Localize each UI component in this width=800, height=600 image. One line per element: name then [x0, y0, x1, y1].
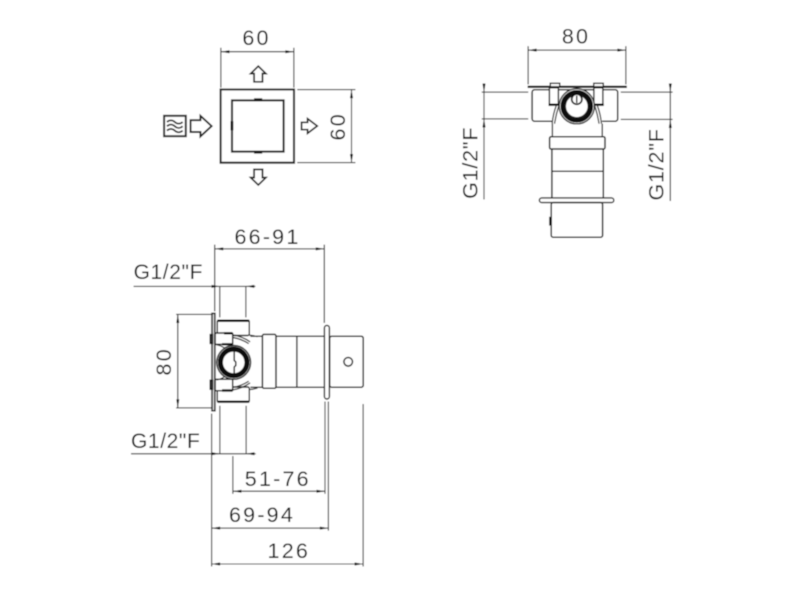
wall rear extension line: [211, 414, 213, 567]
side port circles: [217, 346, 251, 380]
valve head body: [532, 90, 618, 121]
lower port tab through wall: [210, 380, 212, 389]
dimension 60 (right height): [297, 90, 355, 163]
flange (capsule): [324, 325, 329, 399]
svg-text:69-94: 69-94: [229, 503, 295, 527]
upper port tab through wall: [210, 335, 212, 344]
neck below head: [552, 120, 602, 137]
dimension 51-76: [233, 402, 325, 494]
hanger bracket left: [549, 88, 558, 105]
knob screw circle: [344, 358, 353, 367]
hanger bracket right: [594, 88, 603, 105]
legs from brackets to neck: [552, 106, 601, 124]
collar ring (side): [262, 334, 276, 388]
svg-text:60: 60: [326, 112, 350, 140]
tick top center of inner square: [254, 98, 262, 101]
hollow arrow right: [302, 119, 318, 134]
svg-text:G1/2"F: G1/2"F: [645, 128, 669, 200]
lower rear port block: [215, 379, 233, 390]
flange (edge-on): [539, 198, 613, 203]
svg-text:126: 126: [268, 539, 310, 563]
svg-text:80: 80: [562, 24, 590, 48]
dimension 126: [212, 404, 364, 567]
bottom port cap: [217, 387, 249, 402]
wall mounting plate: [212, 313, 215, 410]
svg-text:51-76: 51-76: [245, 467, 311, 491]
tick bottom center of inner square: [254, 151, 262, 154]
knob box: [330, 336, 364, 387]
top port cap: [217, 320, 249, 335]
cartridge circles (top view): [559, 89, 594, 124]
svg-text:G1/2"F: G1/2"F: [131, 430, 200, 453]
spindle slot: [234, 351, 236, 373]
svg-text:66-91: 66-91: [235, 225, 301, 249]
G1/2"F dimension right (top view): [621, 83, 673, 201]
screw tab right: [594, 83, 603, 87]
small stop tab: [549, 217, 551, 226]
collar ring: [550, 137, 605, 149]
shoulder curves lower: [216, 375, 257, 390]
hollow flow arrow left (inlet): [191, 116, 212, 137]
dimension 80 (wall plate height): [176, 314, 213, 408]
lower body: [551, 203, 602, 238]
stem screw slot: [576, 96, 578, 103]
hollow arrow up: [251, 66, 266, 82]
hollow arrow down: [251, 169, 266, 185]
svg-text:G1/2"F: G1/2"F: [134, 261, 203, 284]
outer plate square: [221, 90, 294, 163]
inner function square: [232, 100, 284, 151]
tick left middle of inner square: [230, 121, 233, 130]
body tube below collar: [551, 149, 553, 198]
dimension 60 (top width): [221, 48, 294, 88]
svg-text:60: 60: [242, 26, 270, 50]
shoulder curves upper: [216, 335, 257, 351]
stem screw circle: [572, 94, 582, 104]
svg-text:80: 80: [152, 347, 176, 375]
svg-text:G1/2"F: G1/2"F: [459, 127, 483, 199]
horizontal cylinder: [250, 335, 324, 337]
hot-water symbol box with waves: [164, 116, 186, 136]
mounting plate (edge-on): [528, 86, 627, 88]
dimension 80 (top): [528, 46, 626, 84]
G1/2"F dimension left (top view): [482, 83, 528, 199]
dimension 66-91: [215, 245, 325, 323]
screw tab left: [550, 83, 559, 87]
tube division line: [296, 336, 298, 387]
upper rear port block: [215, 333, 233, 344]
dimension 69-94: [212, 402, 329, 531]
